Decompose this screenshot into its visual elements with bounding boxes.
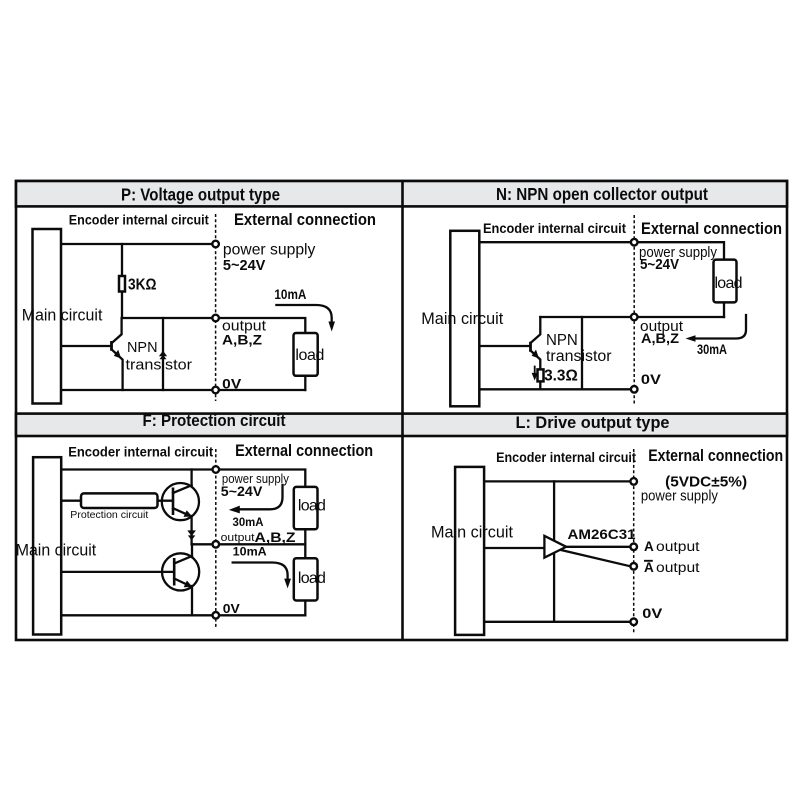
svg-text:F: Protection circuit: F: Protection circuit [143,411,286,430]
svg-text:output: output [221,532,255,544]
svg-text:power supply: power supply [223,242,316,259]
svg-text:load: load [298,498,326,515]
svg-text:External connection: External connection [235,442,373,460]
svg-text:load: load [295,347,324,364]
svg-text:External connection: External connection [641,220,782,238]
svg-text:10mA: 10mA [274,287,306,302]
svg-text:output: output [656,539,700,554]
svg-text:0V: 0V [641,371,662,387]
svg-text:External connection: External connection [648,447,783,465]
svg-text:Main circuit: Main circuit [22,306,103,324]
svg-text:N: NPN open collector output: N: NPN open collector output [496,184,708,204]
svg-text:output: output [656,560,700,575]
svg-text:NPN: NPN [546,332,578,349]
svg-text:Encoder internal circuit: Encoder internal circuit [496,449,636,465]
svg-text:power supply: power supply [641,488,718,505]
svg-text:5~24V: 5~24V [640,257,679,273]
svg-text:3KΩ: 3KΩ [128,277,157,294]
svg-text:AM26C31: AM26C31 [568,527,637,542]
svg-text:transistor: transistor [126,357,193,374]
svg-text:Main circuit: Main circuit [431,523,513,541]
svg-text:A: A [644,539,654,554]
svg-text:0V: 0V [222,376,242,392]
svg-text:10mA: 10mA [233,545,267,559]
svg-text:Protection circuit: Protection circuit [70,509,148,521]
svg-text:Main circuit: Main circuit [16,541,97,559]
svg-text:load: load [298,570,326,587]
svg-text:0V: 0V [642,605,663,621]
svg-text:L: Drive output type: L: Drive output type [516,413,670,432]
svg-text:transistor: transistor [546,348,612,365]
svg-text:30mA: 30mA [233,515,264,529]
svg-text:Encoder internal circuit: Encoder internal circuit [69,212,209,228]
svg-text:Encoder internal circuit: Encoder internal circuit [483,220,626,236]
svg-text:5~24V: 5~24V [223,257,266,274]
svg-text:0V: 0V [223,601,240,616]
svg-text:A,B,Z: A,B,Z [222,332,262,348]
svg-text:load: load [715,275,743,292]
svg-text:A,B,Z: A,B,Z [641,330,679,346]
svg-text:External connection: External connection [234,211,376,229]
svg-text:P: Voltage output type: P: Voltage output type [121,184,280,204]
svg-text:A,B,Z: A,B,Z [255,529,296,545]
svg-text:3.3Ω: 3.3Ω [544,368,578,385]
svg-text:5~24V: 5~24V [221,483,263,499]
svg-text:30mA: 30mA [697,342,727,357]
svg-text:A: A [644,560,654,575]
svg-text:Main circuit: Main circuit [421,310,503,328]
svg-text:Encoder internal circuit: Encoder internal circuit [68,443,213,459]
svg-text:NPN: NPN [127,339,158,356]
